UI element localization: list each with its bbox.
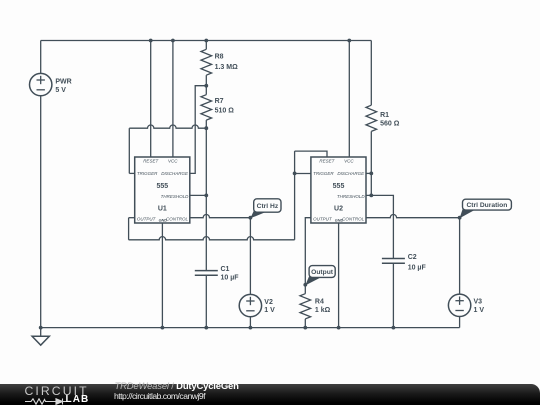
svg-text:10 µF: 10 µF [408,264,427,271]
svg-text:THRESHOLD: THRESHOLD [161,194,190,199]
svg-text:VCC: VCC [344,159,354,164]
svg-text:R8: R8 [215,54,224,61]
svg-text:560 Ω: 560 Ω [380,120,400,127]
svg-text:U2: U2 [334,206,343,213]
svg-text:Ctrl Hz: Ctrl Hz [257,203,279,210]
svg-text:V3: V3 [474,299,483,306]
svg-text:OUTPUT: OUTPUT [313,216,333,221]
svg-text:TRIGGER: TRIGGER [137,171,158,176]
svg-text:C1: C1 [221,266,230,273]
svg-text:CONTROL: CONTROL [166,216,188,221]
svg-text:U1: U1 [158,206,167,213]
svg-text:1.3 MΩ: 1.3 MΩ [215,64,239,71]
svg-text:RESET: RESET [319,159,335,164]
svg-text:THRESHOLD: THRESHOLD [337,194,366,199]
svg-text:1 kΩ: 1 kΩ [315,307,331,314]
svg-text:V2: V2 [264,299,273,306]
svg-text:R1: R1 [380,112,389,119]
svg-text:VCC: VCC [168,159,178,164]
svg-text:555: 555 [333,183,345,190]
svg-text:TRIGGER: TRIGGER [313,171,334,176]
svg-text:5 V: 5 V [55,87,66,94]
svg-text:RESET: RESET [143,159,159,164]
svg-text:PWR: PWR [55,79,71,86]
svg-text:R7: R7 [215,98,224,105]
svg-text:OUTPUT: OUTPUT [137,216,157,221]
svg-text:CONTROL: CONTROL [342,216,364,221]
svg-text:510 Ω: 510 Ω [215,107,235,114]
svg-text:555: 555 [156,183,168,190]
svg-text:Output: Output [311,269,334,276]
svg-text:DISCHARGE: DISCHARGE [337,171,365,176]
svg-text:C2: C2 [408,254,417,261]
svg-text:DISCHARGE: DISCHARGE [161,171,189,176]
svg-text:10 µF: 10 µF [221,275,240,282]
svg-text:Ctrl Duration: Ctrl Duration [466,202,507,209]
svg-text:R4: R4 [315,299,324,306]
svg-text:1 V: 1 V [264,307,275,314]
svg-text:1 V: 1 V [474,307,485,314]
